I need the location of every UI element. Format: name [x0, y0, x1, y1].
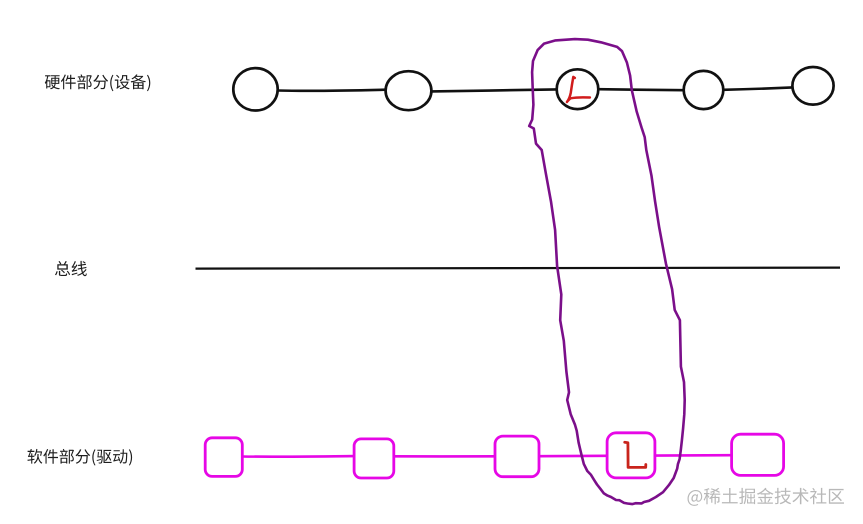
wire device3-device4	[598, 89, 684, 90]
purple highlight loop around device 3 and driver box 4	[529, 39, 685, 504]
label: hardware section (devices)	[45, 74, 151, 91]
device circle 1	[233, 68, 277, 110]
bus line	[196, 268, 841, 269]
label: bus	[55, 261, 87, 276]
device circle 3 (selected, marked L)	[557, 69, 599, 109]
device circle 2	[386, 71, 432, 110]
label: software section (drivers)	[27, 449, 132, 466]
wire device2-device3	[431, 89, 556, 91]
driver connector box1-box2	[242, 455, 354, 458]
driver box 2	[354, 439, 394, 478]
driver connector box4-box5	[655, 454, 732, 457]
device circle 4	[684, 71, 724, 109]
driver box 4 (selected, marked L)	[607, 433, 655, 478]
driver box 5	[732, 434, 784, 475]
red letter L inside device circle 3	[567, 77, 590, 102]
driver box 3	[495, 436, 539, 477]
driver connector box3-box4	[539, 454, 607, 457]
wire device1-device2	[278, 90, 386, 91]
driver connector box2-box3	[394, 455, 495, 458]
wire device4-device5	[723, 87, 792, 89]
red letter L inside driver box 4	[625, 442, 646, 467]
watermark: Juejin community	[688, 488, 845, 506]
device circle 5	[792, 67, 833, 105]
driver box 1	[205, 438, 242, 477]
